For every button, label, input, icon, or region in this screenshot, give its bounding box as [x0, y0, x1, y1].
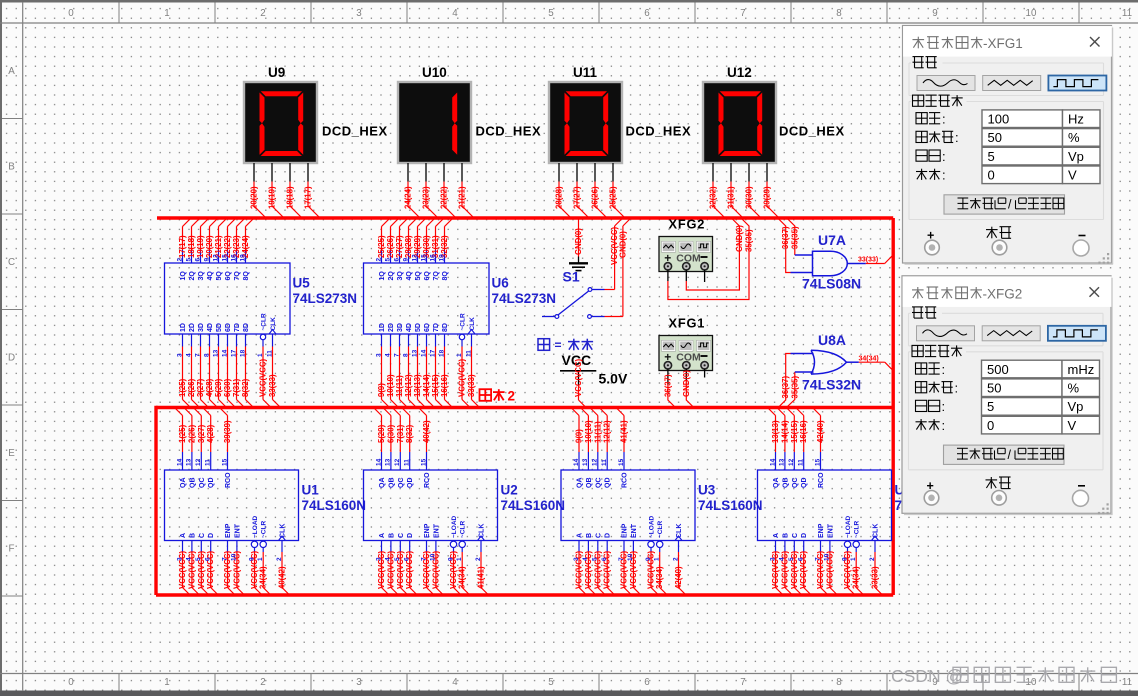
svg-text:~CLR: ~CLR: [460, 521, 467, 538]
svg-text:1: 1: [456, 353, 463, 357]
wire U5 pin 11 (CLK) net 33(33): [266, 317, 280, 408]
VCC power source: [560, 352, 596, 385]
svg-text:10: 10: [824, 553, 831, 561]
wire XFG1 COM to bus 2 net GND(0): [682, 369, 694, 408]
svg-text:34(34): 34(34): [852, 566, 861, 589]
svg-text:1D: 1D: [379, 323, 386, 332]
svg-text:50: 50: [988, 130, 1002, 145]
svg-text:33(33): 33(33): [467, 374, 476, 397]
svg-text:4: 4: [452, 677, 458, 688]
svg-text:17: 17: [429, 349, 436, 357]
svg-text:8: 8: [402, 353, 409, 357]
svg-text:QA: QA: [577, 478, 584, 489]
wire display U11 pin 3 to bus net 26(26): [591, 163, 608, 218]
wire U6 pin 2 (1Q) to top bus net 25(25): [375, 219, 389, 281]
svg-text:VCC(VCC): VCC(VCC): [197, 550, 206, 589]
svg-text:1: 1: [850, 557, 857, 561]
svg-text:14: 14: [769, 458, 776, 466]
svg-text:10: 10: [430, 553, 437, 561]
svg-text:0: 0: [68, 677, 74, 688]
wire U3 pin 5 (C) to bottom bus net VCC(VCC): [592, 533, 606, 595]
svg-text:74LS32N: 74LS32N: [802, 377, 861, 393]
svg-text:QA: QA: [180, 478, 187, 489]
svg-text:13: 13: [411, 349, 418, 357]
IC U5 74LS273N body: [165, 263, 291, 334]
wire display U10 pin 2 to bus net 23(23): [422, 163, 439, 218]
svg-text:15: 15: [420, 254, 427, 262]
svg-text:2Q: 2Q: [388, 271, 395, 281]
wire U6 pin 14 (6D) to bus 2 net 14(14): [420, 323, 434, 407]
svg-text:27(27): 27(27): [573, 186, 582, 209]
IC U4 74LS160N body: [758, 470, 892, 541]
svg-text:5: 5: [987, 399, 994, 414]
svg-text::: :: [942, 362, 946, 377]
svg-text:B: B: [8, 162, 15, 173]
svg-text:VCC(VCC): VCC(VCC): [647, 550, 656, 589]
svg-text:U8A: U8A: [818, 332, 846, 348]
svg-text:8: 8: [203, 353, 210, 357]
svg-text:10(10): 10(10): [584, 420, 593, 443]
svg-text:14: 14: [375, 458, 382, 466]
bus left edge: [154, 406, 157, 595]
svg-text:5: 5: [384, 258, 391, 262]
wire U1 pin 13 (QB) from bus 2 net 2(26): [184, 408, 196, 488]
svg-text::: :: [942, 399, 946, 414]
svg-text:=: =: [555, 338, 562, 352]
wire U4 pin 4 (B) to bottom bus net VCC(VCC): [779, 533, 793, 595]
wire XFG2 + output to bus net 35(35): [668, 219, 754, 300]
wire U2 pin 10 (ENT) to bottom bus net VCC(VCC): [430, 523, 444, 595]
wire U6 pin 16 (7Q) to top bus net 31(31): [429, 219, 443, 281]
svg-text:5: 5: [592, 557, 599, 561]
svg-text:16: 16: [429, 254, 436, 262]
svg-text:3: 3: [573, 557, 580, 561]
wire U1 pin 12 (QC) from bus 2 net 3(27): [194, 408, 206, 488]
wire U6 pin 9 (4Q) to top bus net 28(28): [402, 219, 416, 281]
svg-text:6: 6: [601, 557, 608, 561]
function generator XFG2: [659, 237, 713, 272]
svg-text:9: 9: [645, 557, 652, 561]
wire U1 pin 1 (~CLR) to bottom bus net 34(34): [257, 521, 271, 595]
svg-text:13(13): 13(13): [771, 420, 780, 443]
svg-text:5(29): 5(29): [214, 378, 223, 397]
window frame bars: [0, 0, 1138, 3]
svg-text:15: 15: [618, 458, 625, 466]
svg-text:74LS273N: 74LS273N: [293, 291, 358, 306]
svg-text:XFG2: XFG2: [669, 217, 706, 232]
wire U8A output net 34(34): [859, 356, 893, 370]
wire display U11 pin 4 to bus net 25(25): [609, 163, 626, 218]
svg-text:C: C: [792, 533, 799, 538]
svg-text:D: D: [407, 533, 414, 538]
svg-text:VCC(VCC): VCC(VCC): [593, 550, 602, 589]
svg-text:8(32): 8(32): [241, 378, 250, 397]
svg-text:32(32): 32(32): [709, 186, 718, 209]
svg-text:7: 7: [814, 557, 821, 561]
wire U3 pin 11 (QD) from bus 2 net 12(12): [600, 408, 612, 488]
wire U8A input A from bus 2 net 36(37): [778, 354, 790, 408]
wire U2 pin 5 (C) to bottom bus net VCC(VCC): [394, 533, 408, 595]
wire XFG1 + output to bus 2 net 36(37): [663, 369, 675, 408]
wire display U9 pin 1 to bus net 20(20): [250, 163, 267, 218]
label U6 74LS273N: [492, 276, 557, 307]
svg-text:RCO: RCO: [622, 472, 629, 488]
wire display U12 pin 1 to bus net 32(32): [709, 163, 726, 218]
svg-text:29(29): 29(29): [763, 186, 772, 209]
wire U5 pin 2 (1Q) to top bus net 17(17): [176, 219, 190, 281]
svg-text:5: 5: [185, 258, 192, 262]
svg-text:GND(0): GND(0): [618, 231, 627, 258]
svg-text:ENP: ENP: [818, 523, 825, 538]
svg-text:18(18): 18(18): [286, 186, 295, 209]
svg-text:1: 1: [257, 557, 264, 561]
svg-text:3: 3: [769, 557, 776, 561]
wire U3 pin 4 (B) to bottom bus net VCC(VCC): [582, 533, 596, 595]
AND gate U7A: [791, 251, 866, 275]
svg-text:QB: QB: [586, 478, 593, 489]
wire U4 pin 14 (QA) from bus 2 net 13(13): [768, 408, 780, 488]
svg-text:9(9): 9(9): [575, 429, 584, 443]
svg-text:6: 6: [205, 557, 212, 561]
svg-text:36(37): 36(37): [663, 374, 672, 397]
svg-text:3: 3: [176, 353, 183, 357]
wire U2 pin 6 (D) to bottom bus net VCC(VCC): [404, 533, 418, 595]
function generator XFG1: [659, 336, 713, 371]
svg-text:3: 3: [375, 557, 382, 561]
svg-text:5: 5: [195, 557, 202, 561]
wire U5 pin 19 (8Q) to top bus net 24(24): [239, 219, 253, 281]
svg-text:40(42): 40(42): [278, 566, 287, 589]
svg-text:18: 18: [438, 349, 445, 357]
wire U2 pin 14 (QA) from bus 2 net 5(29): [374, 408, 386, 488]
IC U2 74LS160N body: [364, 470, 498, 541]
svg-text:Vp: Vp: [1068, 149, 1084, 164]
svg-text:9: 9: [932, 8, 937, 19]
IC U1 74LS160N body: [165, 470, 299, 541]
svg-text:U10: U10: [422, 65, 447, 80]
svg-text::: :: [942, 418, 946, 433]
svg-text:12: 12: [411, 254, 418, 262]
wire U6 pin 1 (~CLR) net VCC(VCC): [456, 313, 470, 407]
svg-text:18(18): 18(18): [187, 235, 196, 258]
svg-text:3(27): 3(27): [196, 378, 205, 397]
svg-text:C: C: [199, 533, 206, 538]
svg-text:2D: 2D: [388, 323, 395, 332]
svg-text:2: 2: [672, 557, 679, 561]
svg-text:5: 5: [988, 149, 995, 164]
wire U4 pin 3 (A) to bottom bus net VCC(VCC): [769, 533, 783, 595]
svg-text:VCC(VCC): VCC(VCC): [843, 550, 852, 589]
svg-text:23(23): 23(23): [422, 186, 431, 209]
svg-text:6: 6: [393, 258, 400, 262]
svg-text:D: D: [208, 533, 215, 538]
wire U2 pin 12 (QC) from bus 2 net 7(31): [393, 408, 405, 488]
svg-text:4: 4: [385, 557, 392, 561]
svg-text:24(24): 24(24): [404, 186, 413, 209]
wire U6 pin 5 (2Q) to top bus net 26(26): [384, 219, 398, 281]
wire U4 pin 2 (CLK) to bottom bus net 33(33): [869, 524, 883, 595]
svg-text:25(25): 25(25): [377, 235, 386, 258]
svg-text:DCD_HEX: DCD_HEX: [322, 124, 388, 139]
svg-text:RCO: RCO: [818, 472, 825, 488]
wire U4 pin 10 (ENT) to bottom bus net VCC(VCC): [824, 523, 838, 595]
svg-text:74LS160N: 74LS160N: [698, 498, 763, 513]
svg-text:GND(0): GND(0): [735, 225, 744, 252]
dialog 函数发生器-XFG1: [903, 26, 1114, 265]
svg-text:2D: 2D: [189, 323, 196, 332]
svg-text:7: 7: [740, 677, 745, 688]
svg-text:14(14): 14(14): [422, 374, 431, 397]
svg-text:7: 7: [221, 557, 228, 561]
svg-text:2: 2: [375, 258, 382, 262]
svg-text:GND(0): GND(0): [682, 370, 691, 397]
svg-text:S1: S1: [563, 269, 580, 285]
svg-text:74LS160N: 74LS160N: [302, 498, 367, 513]
svg-text:2: 2: [276, 557, 283, 561]
svg-text:12(12): 12(12): [603, 420, 612, 443]
wire U5 pin 9 (4Q) to top bus net 20(20): [203, 219, 217, 281]
svg-text:15(15): 15(15): [431, 374, 440, 397]
svg-text:4: 4: [186, 557, 193, 561]
svg-text:35(35): 35(35): [790, 226, 799, 249]
svg-text:13(13): 13(13): [413, 374, 422, 397]
svg-text:VCC(VCC): VCC(VCC): [603, 550, 612, 589]
svg-text:VCC(VCC): VCC(VCC): [250, 550, 259, 589]
wire U5 pin 14 (6D) to bus 2 net 6(30): [221, 323, 235, 407]
wire U5 pin 16 (7Q) to top bus net 23(23): [230, 219, 244, 281]
svg-text:13: 13: [212, 349, 219, 357]
svg-text:15: 15: [420, 458, 427, 466]
bus wire right edge: [892, 218, 895, 595]
svg-text:B: B: [388, 533, 395, 538]
svg-text:2: 2: [475, 557, 482, 561]
svg-text:F: F: [9, 544, 15, 555]
svg-text:13: 13: [582, 458, 589, 466]
label U8A 74LS32N: [802, 332, 861, 393]
svg-text:6: 6: [644, 677, 650, 688]
svg-text:35(35): 35(35): [790, 376, 799, 399]
svg-text:DCD_HEX: DCD_HEX: [626, 124, 692, 139]
wire U3 pin 10 (ENT) to bottom bus net VCC(VCC): [627, 523, 641, 595]
wire U2 pin 9 (~LOAD) to bottom bus net VCC(VCC): [447, 515, 461, 595]
svg-text:7: 7: [420, 557, 427, 561]
wire U5 pin 5 (2Q) to top bus net 18(18): [185, 219, 199, 281]
wire display U10 pin 1 to bus net 24(24): [404, 163, 421, 218]
svg-text:2: 2: [260, 677, 265, 688]
svg-text:35(35): 35(35): [745, 229, 754, 252]
svg-text:31(31): 31(31): [727, 186, 736, 209]
wire U4 pin 15 (RCO) from bus 2 net 42(40): [813, 408, 825, 488]
wire U6 pin 12 (5Q) to top bus net 29(29): [411, 219, 425, 281]
svg-text:1: 1: [456, 557, 463, 561]
wire display U11 pin 2 to bus net 27(27): [573, 163, 590, 218]
svg-text:19(19): 19(19): [196, 235, 205, 258]
svg-text:8D: 8D: [442, 323, 449, 332]
svg-text:50: 50: [987, 381, 1001, 396]
wire U4 pin 9 (~LOAD) to bottom bus net VCC(VCC): [841, 515, 855, 595]
svg-text:6: 6: [798, 557, 805, 561]
svg-text:42(40): 42(40): [674, 566, 683, 589]
wire U2 pin 1 (~CLR) to bottom bus net 34(34): [456, 521, 470, 595]
wire U6 pin 4 (2D) to bus 2 net 10(10): [384, 323, 398, 407]
svg-text:U2: U2: [501, 483, 518, 498]
svg-text:1: 1: [164, 8, 169, 19]
wire U6 pin 17 (7D) to bus 2 net 15(15): [429, 323, 443, 407]
wire U1 pin 5 (C) to bottom bus net VCC(VCC): [195, 533, 209, 595]
svg-text:3Q: 3Q: [397, 271, 404, 281]
svg-text:VCC(VCC): VCC(VCC): [386, 550, 395, 589]
svg-text:11: 11: [601, 459, 608, 466]
svg-text:22(22): 22(22): [440, 186, 449, 209]
svg-text:QB: QB: [388, 478, 395, 489]
wire U2 pin 4 (B) to bottom bus net VCC(VCC): [385, 533, 399, 595]
svg-text:~LOAD: ~LOAD: [451, 515, 458, 538]
svg-text:8D: 8D: [243, 323, 250, 332]
svg-text:9: 9: [203, 258, 210, 262]
svg-text:VCC(VCC): VCC(VCC): [771, 550, 780, 589]
svg-text:6(30): 6(30): [386, 424, 395, 443]
svg-text:1(25): 1(25): [178, 378, 187, 397]
svg-text:VCC(VCC): VCC(VCC): [178, 550, 187, 589]
svg-text:QA: QA: [379, 478, 386, 489]
svg-text:15: 15: [221, 458, 228, 466]
wire U6 pin 11 (CLK) net 33(33): [465, 317, 479, 408]
wire U2 pin 7 (ENP) to bottom bus net VCC(VCC): [420, 523, 434, 595]
svg-text:14: 14: [221, 349, 228, 357]
7-segment display U10: [398, 82, 471, 163]
svg-text:B: B: [782, 533, 789, 538]
wire U2 pin 13 (QB) from bus 2 net 6(30): [383, 408, 395, 488]
svg-text:41(41): 41(41): [620, 420, 629, 443]
svg-text:VCC(VCC): VCC(VCC): [206, 550, 215, 589]
svg-text:28(28): 28(28): [555, 186, 564, 209]
wire U3 pin 6 (D) to bottom bus net VCC(VCC): [601, 533, 615, 595]
svg-text:9(9): 9(9): [377, 383, 386, 397]
wire U2 pin 11 (QD) from bus 2 net 8(32): [402, 408, 414, 488]
svg-text:%: %: [1068, 381, 1080, 396]
svg-text:4D: 4D: [207, 323, 214, 332]
svg-text:1: 1: [164, 677, 169, 688]
wire U6 pin 15 (6Q) to top bus net 30(30): [420, 219, 434, 281]
svg-text:19: 19: [438, 254, 445, 262]
svg-text:13: 13: [779, 458, 786, 466]
wire U4 pin 7 (ENP) to bottom bus net VCC(VCC): [814, 523, 828, 595]
wire U5 pin 15 (6Q) to top bus net 22(22): [221, 219, 235, 281]
wire U5 pin 4 (2D) to bus 2 net 2(26): [185, 323, 199, 407]
label U5 74LS273N: [293, 276, 358, 307]
svg-text:GND(0): GND(0): [574, 228, 583, 255]
wire U5 pin 3 (1D) to bus 2 net 1(25): [176, 323, 190, 407]
label U4 74LS160N: [895, 483, 960, 514]
svg-text:QC: QC: [595, 478, 602, 489]
svg-text:U7A: U7A: [818, 232, 846, 248]
wire U1 pin 6 (D) to bottom bus net VCC(VCC): [205, 533, 219, 595]
wire U2 pin 3 (A) to bottom bus net VCC(VCC): [375, 533, 389, 595]
svg-text:5: 5: [548, 8, 554, 19]
wire display U9 pin 2 to bus net 19(19): [268, 163, 285, 218]
svg-text:~CLR: ~CLR: [854, 521, 861, 538]
stub XFG1 - terminal: [704, 369, 706, 378]
wire U6 pin 18 (8D) to bus 2 net 16(16): [438, 323, 452, 407]
svg-text:6Q: 6Q: [225, 271, 232, 281]
svg-text:A: A: [180, 533, 187, 538]
rulers: [0, 22, 1138, 24]
svg-text:15(15): 15(15): [790, 420, 799, 443]
svg-text:34(34): 34(34): [655, 566, 664, 589]
wire U5 pin 6 (3Q) to top bus net 19(19): [194, 219, 208, 281]
svg-text:RCO: RCO: [225, 472, 232, 488]
wire U1 pin 7 (ENP) to bottom bus net VCC(VCC): [221, 523, 235, 595]
svg-text:11: 11: [798, 459, 805, 466]
svg-text:6D: 6D: [424, 323, 431, 332]
svg-text:VCC(VCC): VCC(VCC): [584, 550, 593, 589]
wire display U12 pin 3 to bus net 30(30): [745, 163, 762, 218]
svg-text:U3: U3: [698, 483, 716, 498]
svg-text:2: 2: [176, 258, 183, 262]
svg-text:10: 10: [231, 553, 238, 561]
dialog 函数发生器-XFG2: [902, 276, 1113, 515]
svg-text:11: 11: [465, 350, 472, 357]
svg-text:VCC(VCC): VCC(VCC): [790, 550, 799, 589]
svg-text:E: E: [8, 448, 15, 459]
svg-text:8: 8: [836, 677, 842, 688]
wire U1 pin 4 (B) to bottom bus net VCC(VCC): [186, 533, 200, 595]
svg-text:1Q: 1Q: [180, 271, 187, 281]
svg-text:19(19): 19(19): [268, 186, 277, 209]
wire U5 pin 18 (8D) to bus 2 net 8(32): [239, 323, 253, 407]
svg-text:CLK: CLK: [676, 524, 683, 538]
svg-text:VCC(VCC): VCC(VCC): [259, 358, 268, 397]
svg-text:QC: QC: [792, 478, 799, 489]
svg-text:C: C: [8, 257, 15, 268]
bus 总线2 mid bus wire: [156, 406, 893, 409]
IC U3 74LS160N body: [561, 470, 695, 541]
wire U5 pin 13 (5D) to bus 2 net 5(29): [212, 323, 226, 407]
wire U3 pin 15 (RCO) from bus 2 net 41(41): [617, 408, 629, 488]
svg-text:1: 1: [257, 353, 264, 357]
svg-text:7D: 7D: [234, 323, 241, 332]
svg-text:500: 500: [987, 362, 1009, 377]
svg-text:12: 12: [212, 254, 219, 262]
wire U6 pin 6 (3Q) to top bus net 27(27): [393, 219, 407, 281]
svg-text:33(33): 33(33): [871, 566, 880, 589]
svg-text:0: 0: [68, 8, 74, 19]
wire ground to bus net GND(0): [574, 220, 583, 257]
svg-text:3Q: 3Q: [198, 271, 205, 281]
svg-text:3D: 3D: [397, 323, 404, 332]
svg-text:16(16): 16(16): [799, 420, 808, 443]
svg-text:11: 11: [205, 459, 212, 466]
label U1 74LS160N: [302, 483, 367, 514]
svg-text:12(12): 12(12): [404, 374, 413, 397]
wire U5 pin 7 (3D) to bus 2 net 3(27): [194, 323, 208, 407]
svg-text:41(41): 41(41): [477, 566, 486, 589]
wire display U10 pin 4 to bus net 21(21): [458, 163, 475, 218]
svg-text:mHz: mHz: [1068, 362, 1095, 377]
svg-text:4(28): 4(28): [205, 378, 214, 397]
svg-text:DCD_HEX: DCD_HEX: [779, 124, 845, 139]
wire U1 pin 2 (CLK) to bottom bus net 40(42): [276, 524, 290, 595]
svg-text:39(39): 39(39): [223, 420, 232, 443]
svg-text:CLK: CLK: [469, 317, 476, 331]
svg-text:5: 5: [788, 557, 795, 561]
svg-text:VCC(VCC): VCC(VCC): [575, 550, 584, 589]
svg-text:34(34): 34(34): [859, 356, 879, 363]
wire U8A input B from bus 2 net 35(35): [786, 372, 799, 408]
svg-text:~LOAD: ~LOAD: [649, 515, 656, 538]
svg-text:QB: QB: [782, 478, 789, 489]
svg-text:5D: 5D: [216, 323, 223, 332]
